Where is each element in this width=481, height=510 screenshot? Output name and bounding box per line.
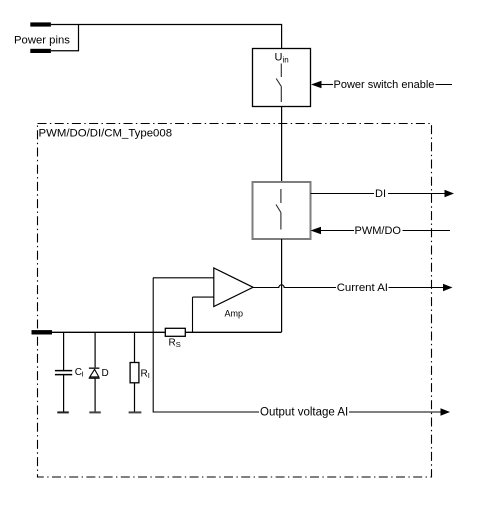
arrowhead Current AI output — [443, 284, 453, 292]
diode D base bar — [89, 377, 100, 379]
wire from top pin to U_in box — [51, 25, 282, 49]
svg-text:RI: RI — [141, 368, 150, 380]
wire DI right segment — [388, 193, 445, 195]
op-amp U2 Amp — [214, 268, 253, 307]
wire PWM/DO left segment — [321, 230, 355, 232]
wire power switch enable right segment — [436, 84, 453, 86]
switch contact inside S2 — [276, 189, 281, 230]
wire sense rail R_S to riser — [185, 331, 281, 333]
wire Output voltage AI right segment — [349, 411, 442, 413]
connector pin P3 (sense rail input) — [32, 330, 53, 334]
resistor R_I body — [130, 363, 139, 383]
switch contact inside U1 — [276, 64, 281, 103]
resistor R_I bottom lead — [134, 383, 136, 412]
arrowhead Output voltage AI — [441, 408, 451, 416]
diode D cathode bar — [89, 367, 100, 369]
svg-text:Power switch enable: Power switch enable — [334, 79, 435, 91]
wire Current AI with hop over vertical wire — [253, 285, 336, 288]
resistor R_S — [165, 328, 185, 336]
wire amp minus input to rail — [192, 297, 194, 332]
svg-text:PWM/DO/DI/CM_Type008: PWM/DO/DI/CM_Type008 — [39, 128, 173, 140]
wire sense rail pin to R_S — [52, 331, 165, 333]
arrowhead PWM/DO input — [311, 227, 322, 235]
wire amp minus input — [193, 296, 214, 298]
wire PWM/DO right segment — [403, 230, 451, 232]
module boundary box PWM/DO/DI/CM_Type008 — [38, 124, 432, 478]
svg-text:D: D — [102, 368, 109, 379]
capacitor C_I top lead — [63, 332, 65, 371]
diode D triangle — [90, 369, 99, 377]
wire node A vertical from amp plus input to output voltage line — [152, 278, 154, 413]
svg-text:DI: DI — [375, 188, 386, 200]
svg-text:Output voltage AI: Output voltage AI — [260, 407, 348, 419]
wire S2 down to sense rail — [281, 239, 283, 332]
diode D top lead — [94, 332, 96, 368]
terminator bar below D — [89, 411, 101, 413]
svg-text:CI: CI — [75, 367, 84, 379]
svg-text:Uin: Uin — [275, 52, 289, 65]
connector pin P1 (top power pin) — [30, 22, 51, 26]
terminator bar below R_I — [129, 411, 142, 413]
wire DI left segment — [311, 193, 375, 195]
power switch box U1 (U_in) — [253, 49, 311, 107]
wire amp plus input — [153, 277, 214, 279]
resistor R_I top lead — [134, 332, 136, 363]
wire Current AI right segment — [389, 287, 445, 289]
wire power switch enable left segment — [321, 84, 333, 86]
svg-text:Amp: Amp — [225, 309, 244, 319]
switch box S2 — [253, 182, 311, 239]
svg-text:Power pins: Power pins — [14, 35, 70, 47]
connector pin P2 (bottom power pin) — [30, 49, 51, 53]
wire Output voltage AI left segment — [153, 411, 259, 413]
arrowhead DI output — [445, 190, 455, 198]
capacitor C_I plates — [55, 371, 72, 375]
wire from bottom pin joining top wire — [51, 25, 79, 51]
capacitor C_I bottom lead — [63, 375, 65, 412]
diode D bottom lead — [94, 378, 96, 412]
svg-text:PWM/DO: PWM/DO — [355, 225, 402, 237]
svg-text:Current AI: Current AI — [337, 282, 388, 294]
terminator bar below C_I — [57, 411, 69, 413]
wire U1 to S2 — [281, 107, 283, 183]
svg-text:RS: RS — [169, 338, 181, 350]
arrowhead power switch enable — [311, 81, 322, 89]
